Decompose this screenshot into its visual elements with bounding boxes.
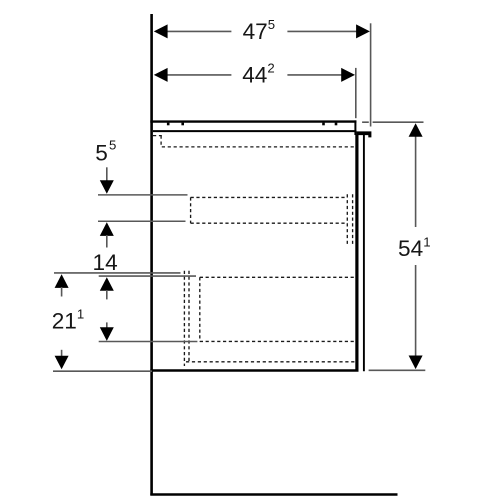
extension line 54.1 top [373, 121, 424, 123]
fixing tick 4 [335, 123, 338, 126]
svg-text:21: 21 [52, 308, 77, 333]
lower drawer dashed box bottom [200, 340, 355, 342]
carcass interior bottom dashed line [186, 361, 355, 363]
arrow 47.5 left [154, 24, 168, 38]
dimension line 54.1 vertical [415, 130, 417, 362]
upper drawer dashed box bottom [191, 222, 348, 224]
upper drawer dashed box top [191, 196, 348, 198]
washbasin slab right edge [354, 120, 356, 135]
dimension line 47.5 left segment [167, 30, 231, 32]
arrow 47.5 right [356, 24, 370, 38]
svg-text:5: 5 [95, 141, 108, 166]
upper drawer front dashed line 1 [346, 194, 348, 244]
dimension line 44.2 left segment [167, 74, 231, 76]
svg-text:47: 47 [243, 19, 268, 44]
svg-text:1: 1 [77, 307, 84, 322]
arrow 5.5 up [100, 222, 114, 236]
arrow 44.2 right [341, 68, 355, 82]
arrow 14 up shaft [106, 290, 108, 299]
fixing tick 3 [322, 123, 325, 126]
extension line C2 (14 top) [99, 275, 196, 277]
washbasin slab bottom line [153, 130, 357, 132]
carcass interior dashed stub at wall [153, 135, 162, 137]
arrow 21.1 down [55, 356, 69, 370]
extension line 54.1 top dash segment [362, 121, 369, 123]
lower drawer back dashed line 2 [188, 271, 190, 362]
extension line A (5.5 top) [98, 194, 188, 196]
arrow 21.1 up [55, 274, 69, 288]
extension line 54.1 bottom [369, 369, 426, 371]
washbasin front edge bar with lip [356, 131, 371, 137]
svg-text:5: 5 [268, 17, 275, 32]
extension line D (14 bottom) [99, 341, 198, 343]
cabinet bottom line [150, 369, 358, 372]
lower drawer dashed box top [200, 276, 355, 278]
carcass interior dashed vertical step [160, 136, 162, 147]
extension line 47.5 [370, 23, 372, 126]
arrow 54.1 down [409, 356, 423, 370]
floor line [150, 493, 397, 496]
arrow 14 down shaft [106, 322, 108, 328]
arrow 5.5 up shaft [106, 235, 108, 248]
washbasin slab top line [150, 120, 356, 122]
upper drawer dashed box left [190, 197, 192, 223]
carcass interior top dashed line [162, 146, 355, 148]
arrow 21.1 up shaft [61, 287, 63, 297]
fixing tick 2 [181, 123, 184, 126]
extension line C1 (21.1 top) [54, 272, 181, 274]
dimension text 54.1 background [396, 227, 433, 265]
arrow 5.5 down shaft [106, 167, 108, 181]
arrow 21.1 down shaft [61, 350, 63, 357]
lower drawer back dashed line 1 [183, 271, 185, 366]
arrow 5.5 down [100, 180, 114, 194]
cabinet front panel inner thin line [363, 135, 365, 371]
wall vertical line [150, 14, 153, 495]
extension line B (5.5 bottom) [98, 220, 186, 222]
dimension line 47.5 right segment [287, 30, 356, 32]
lower drawer dashed box left [199, 277, 201, 341]
upper drawer front dashed line 2 [352, 194, 354, 244]
svg-text:54: 54 [398, 236, 423, 261]
arrow 54.1 up [409, 123, 423, 137]
dimension line 44.2 right segment [287, 74, 342, 76]
svg-text:44: 44 [242, 62, 267, 87]
extension line 44.2 [355, 68, 357, 118]
arrow 14 down [100, 327, 114, 341]
cabinet front panel outer thick line [355, 135, 358, 371]
arrow 14 up [100, 277, 114, 291]
svg-text:14: 14 [93, 250, 118, 275]
fixing tick 1 [167, 123, 170, 126]
svg-text:1: 1 [423, 234, 430, 249]
svg-text:2: 2 [267, 61, 274, 76]
extension line E (21.1 bottom) [53, 370, 152, 372]
arrow 44.2 left [154, 68, 168, 82]
svg-text:5: 5 [109, 138, 116, 153]
